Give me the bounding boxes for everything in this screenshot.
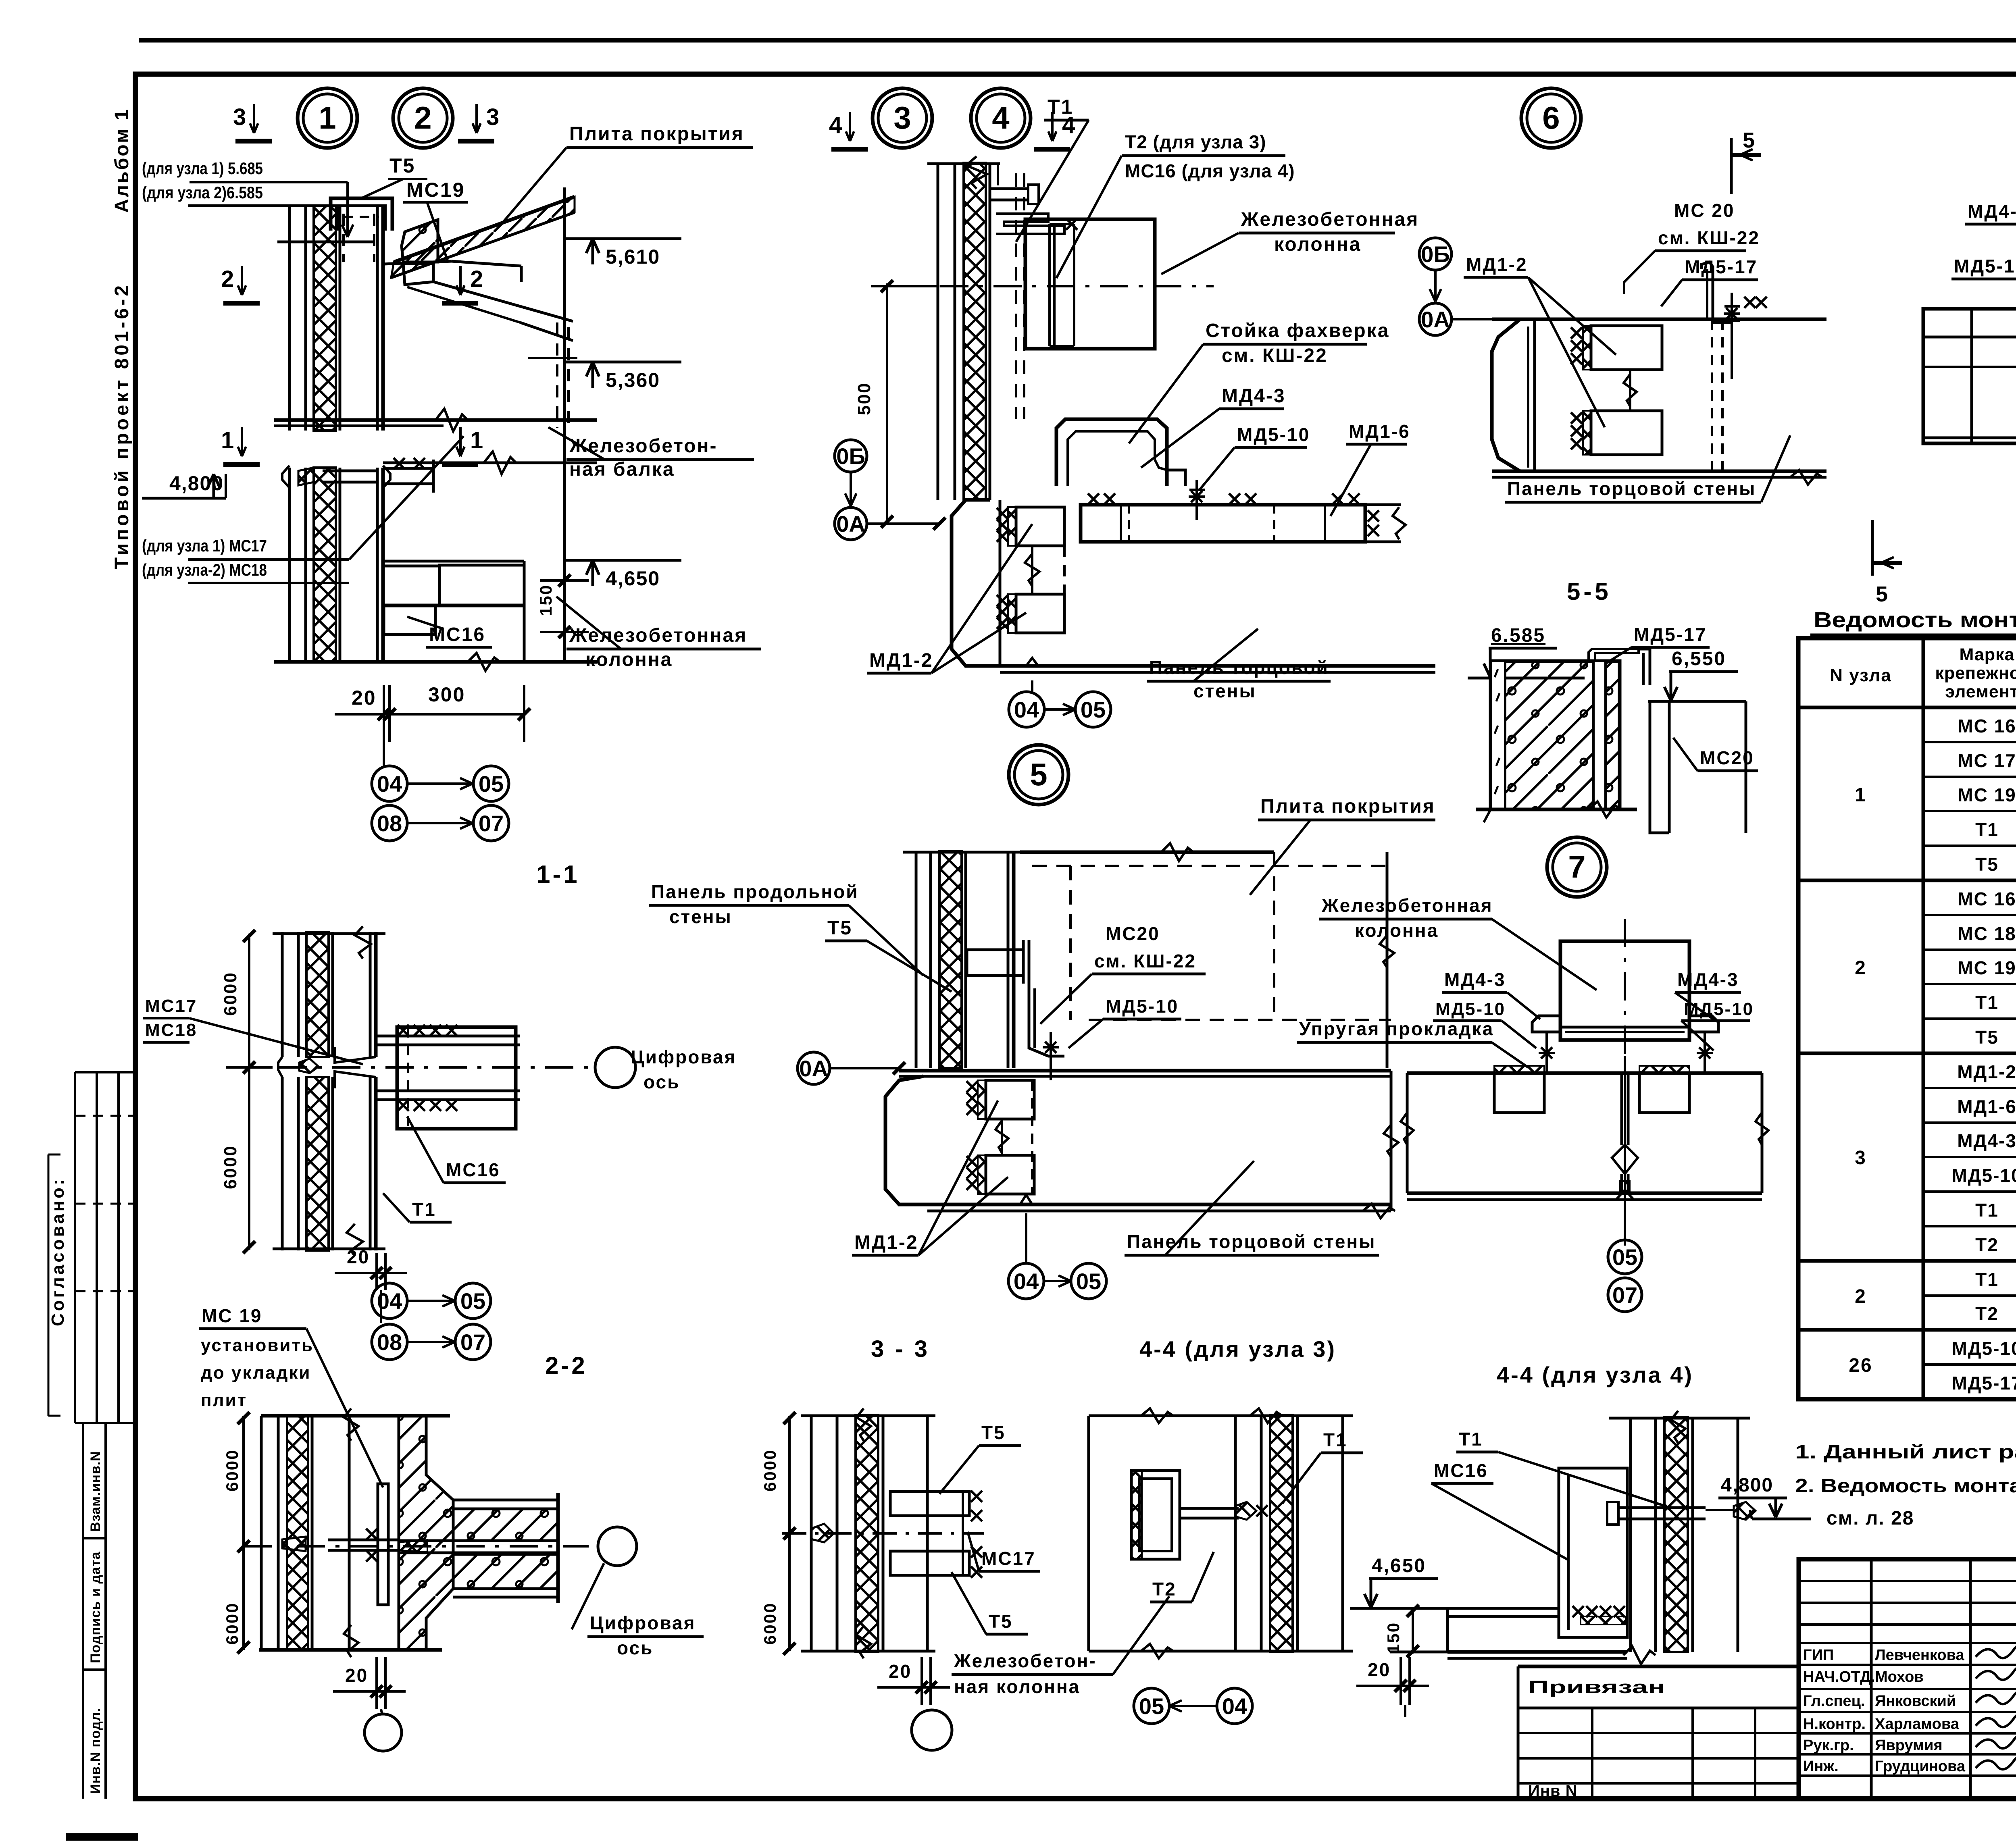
svg-text:3: 3 [486, 104, 499, 130]
svg-text:04: 04 [1014, 1269, 1039, 1294]
svg-text:НАЧ.ОТД.: НАЧ.ОТД. [1803, 1668, 1875, 1685]
svg-text:МД1-2: МД1-2 [869, 650, 933, 671]
svg-text:Панель торцовой стены: Панель торцовой стены [1127, 1231, 1376, 1252]
svg-text:Упругая прокладка: Упругая прокладка [1299, 1018, 1494, 1039]
svg-text:Т1: Т1 [1048, 96, 1073, 118]
svg-text:МС 19: МС 19 [202, 1305, 262, 1326]
svg-text:МС 17: МС 17 [1958, 750, 2016, 771]
svg-text:0А: 0А [799, 1056, 828, 1081]
svg-text:4,800: 4,800 [1721, 1475, 1773, 1496]
svg-text:МД5-10: МД5-10 [1435, 999, 1506, 1019]
svg-text:МД4-3: МД4-3 [1957, 1130, 2016, 1151]
svg-text:05: 05 [479, 771, 504, 797]
svg-text:см. КШ-22: см. КШ-22 [1658, 227, 1760, 248]
svg-text:ная балка: ная балка [569, 459, 675, 480]
svg-text:колонна: колонна [585, 649, 673, 670]
svg-text:3: 3 [233, 104, 246, 130]
svg-text:0А: 0А [836, 511, 865, 537]
svg-text:см. л. 28: см. л. 28 [1826, 1508, 1914, 1529]
svg-text:колонна: колонна [1274, 234, 1361, 255]
svg-text:МД4-3: МД4-3 [1968, 201, 2016, 222]
svg-text:05: 05 [460, 1288, 485, 1314]
svg-text:Ведомость монтажных узлов пане: Ведомость монтажных узлов панелей стен п… [1814, 608, 2016, 632]
svg-text:3: 3 [1855, 1147, 1867, 1169]
svg-text:МД1-2: МД1-2 [854, 1232, 918, 1253]
svg-text:Железобетон-: Железобетон- [569, 435, 718, 457]
svg-text:20: 20 [352, 686, 377, 709]
svg-text:Инж.: Инж. [1803, 1758, 1839, 1775]
svg-text:08: 08 [377, 1329, 402, 1355]
svg-text:Т1: Т1 [1975, 992, 1999, 1013]
svg-text:(для узла-2) МС18: (для узла-2) МС18 [142, 560, 267, 579]
svg-text:Железобетонная: Железобетонная [1241, 209, 1419, 230]
svg-text:6.585: 6.585 [1491, 625, 1545, 646]
svg-text:6000: 6000 [221, 1145, 240, 1189]
svg-text:6,550: 6,550 [1672, 648, 1726, 670]
svg-text:Т5: Т5 [981, 1422, 1006, 1443]
svg-text:МС 19: МС 19 [1958, 957, 2016, 978]
svg-text:20: 20 [347, 1246, 370, 1267]
svg-text:0Б: 0Б [1421, 241, 1450, 267]
svg-text:ная колонна: ная колонна [954, 1676, 1080, 1697]
svg-text:см. КШ-22: см. КШ-22 [1094, 951, 1196, 971]
svg-text:Т2: Т2 [1152, 1579, 1177, 1600]
svg-text:Т2 (для узла 3): Т2 (для узла 3) [1125, 131, 1266, 152]
svg-text:колонна: колонна [1355, 920, 1439, 941]
svg-text:5: 5 [1030, 757, 1047, 792]
svg-text:05: 05 [1612, 1244, 1637, 1270]
svg-text:Инв.N подл.: Инв.N подл. [88, 1708, 103, 1794]
svg-text:N узла: N узла [1830, 666, 1892, 685]
svg-text:4: 4 [829, 112, 842, 138]
svg-text:150: 150 [536, 584, 555, 616]
svg-text:0Б: 0Б [836, 443, 865, 469]
svg-text:МС17: МС17 [981, 1548, 1036, 1569]
svg-text:Панель торцовой: Панель торцовой [1149, 657, 1329, 678]
svg-text:20: 20 [1368, 1659, 1391, 1680]
svg-text:МД5-10: МД5-10 [1951, 1165, 2016, 1186]
svg-text:4,650: 4,650 [606, 567, 660, 590]
svg-text:МС16: МС16 [446, 1159, 500, 1180]
svg-text:МС 16: МС 16 [1958, 888, 2016, 909]
svg-text:Согласовано:: Согласовано: [48, 1177, 68, 1326]
svg-text:МД5-10: МД5-10 [1237, 424, 1310, 445]
svg-text:Т5: Т5 [389, 154, 415, 177]
svg-text:2. Ведомость монтажных узлов п: 2. Ведомость монтажных узлов панелей сте… [1795, 1475, 2016, 1497]
svg-text:МД5-10: МД5-10 [1951, 1338, 2016, 1359]
svg-text:Т5: Т5 [1975, 854, 1999, 875]
svg-text:4-4 (для узла 3): 4-4 (для узла 3) [1139, 1336, 1336, 1362]
svg-text:1: 1 [221, 427, 234, 453]
svg-text:1: 1 [319, 100, 336, 135]
svg-text:5: 5 [1876, 582, 1889, 606]
svg-text:6: 6 [1542, 100, 1560, 135]
svg-text:МД5-10: МД5-10 [1954, 256, 2016, 277]
svg-text:Плита покрытия: Плита покрытия [569, 123, 744, 145]
svg-text:МС16 (для узла 4): МС16 (для узла 4) [1125, 160, 1295, 181]
svg-text:05: 05 [1081, 697, 1106, 722]
svg-text:Т1: Т1 [1975, 819, 1999, 840]
svg-text:07: 07 [460, 1329, 485, 1355]
svg-text:2-2: 2-2 [545, 1352, 587, 1379]
svg-text:МС 19: МС 19 [1958, 784, 2016, 805]
svg-text:Панель продольной: Панель продольной [651, 881, 858, 902]
svg-text:Т5: Т5 [989, 1611, 1013, 1632]
svg-text:20: 20 [889, 1661, 912, 1682]
svg-text:1-1: 1-1 [536, 861, 580, 888]
svg-text:Янковский: Янковский [1875, 1693, 1956, 1710]
svg-text:Т2: Т2 [1975, 1303, 1999, 1324]
svg-text:МД4-3: МД4-3 [1677, 969, 1739, 990]
svg-text:26: 26 [1849, 1355, 1872, 1376]
svg-text:Яврумия: Яврумия [1875, 1737, 1943, 1754]
svg-text:МД1-2: МД1-2 [1957, 1061, 2016, 1082]
svg-text:Левченкова: Левченкова [1875, 1647, 1964, 1664]
svg-text:МД1-6: МД1-6 [1957, 1096, 2016, 1117]
svg-text:4,650: 4,650 [1372, 1555, 1426, 1577]
svg-text:см. КШ-22: см. КШ-22 [1222, 345, 1328, 366]
svg-text:7: 7 [1568, 849, 1585, 884]
svg-text:ось: ось [644, 1071, 680, 1092]
svg-text:04: 04 [377, 771, 402, 797]
svg-text:МС 16: МС 16 [1958, 716, 2016, 736]
svg-text:МС17: МС17 [145, 996, 197, 1016]
svg-text:Т1: Т1 [1459, 1429, 1483, 1450]
svg-text:Цифровая: Цифровая [631, 1046, 736, 1067]
svg-text:МД5-17: МД5-17 [1951, 1373, 2016, 1394]
svg-text:2: 2 [414, 100, 431, 135]
svg-text:МД1-6: МД1-6 [1349, 421, 1410, 442]
svg-text:МС20: МС20 [1700, 747, 1754, 768]
svg-text:МД5-10: МД5-10 [1106, 996, 1179, 1017]
svg-text:3: 3 [893, 100, 911, 135]
svg-text:(для узла 1) МС17: (для узла 1) МС17 [142, 536, 267, 555]
svg-text:МС16: МС16 [1434, 1460, 1488, 1481]
svg-text:Н.контр.: Н.контр. [1803, 1716, 1866, 1733]
svg-text:150: 150 [1384, 1622, 1403, 1654]
svg-text:МД5-17: МД5-17 [1634, 624, 1707, 645]
svg-text:Рук.гр.: Рук.гр. [1803, 1737, 1854, 1754]
svg-text:Взам.инв.N: Взам.инв.N [88, 1451, 103, 1532]
svg-text:Привязан: Привязан [1528, 1677, 1665, 1697]
svg-text:Т5: Т5 [827, 917, 852, 939]
svg-text:крепежного: крепежного [1935, 664, 2016, 683]
svg-text:Гл.спец.: Гл.спец. [1803, 1693, 1865, 1710]
svg-text:2: 2 [1855, 1286, 1867, 1307]
svg-text:(для узла 2)6.585: (для узла 2)6.585 [142, 183, 263, 202]
svg-text:2: 2 [221, 266, 234, 292]
svg-text:05: 05 [1139, 1693, 1164, 1719]
svg-text:МС20: МС20 [1106, 923, 1160, 944]
svg-text:07: 07 [479, 811, 504, 836]
svg-text:Железобетонная: Железобетонная [1321, 895, 1493, 916]
svg-text:5: 5 [1743, 128, 1756, 152]
svg-text:до укладки: до укладки [201, 1363, 311, 1383]
svg-text:6000: 6000 [221, 971, 240, 1016]
svg-text:04: 04 [1014, 697, 1039, 722]
svg-text:Грудцинова: Грудцинова [1875, 1758, 1966, 1775]
svg-text:Железобетон-: Железобетон- [954, 1650, 1097, 1671]
svg-text:Т1: Т1 [412, 1199, 436, 1220]
svg-text:стены: стены [669, 906, 732, 927]
svg-text:Стойка фахверка: Стойка фахверка [1206, 320, 1389, 341]
svg-text:2: 2 [1855, 957, 1867, 979]
svg-text:стены: стены [1193, 680, 1256, 701]
svg-text:1. Данный лист рассматривать с: 1. Данный лист рассматривать совместно с… [1795, 1442, 2016, 1463]
svg-text:6000: 6000 [223, 1602, 242, 1645]
svg-text:3 - 3: 3 - 3 [871, 1336, 930, 1362]
svg-text:элемента: элемента [1945, 682, 2016, 701]
svg-text:Т1: Т1 [1975, 1269, 1999, 1290]
svg-text:МД5-10: МД5-10 [1684, 999, 1754, 1019]
svg-text:20: 20 [345, 1665, 368, 1686]
svg-text:4: 4 [992, 100, 1009, 135]
svg-text:07: 07 [1612, 1282, 1637, 1308]
svg-text:МД5-17: МД5-17 [1685, 256, 1758, 277]
svg-text:Т5: Т5 [1975, 1027, 1999, 1048]
svg-text:Типовой проект 801-6-2: Типовой проект 801-6-2 [111, 283, 133, 569]
svg-text:Альбом 1: Альбом 1 [111, 108, 133, 213]
svg-text:6000: 6000 [760, 1449, 779, 1491]
svg-text:5,360: 5,360 [606, 369, 660, 391]
svg-text:6000: 6000 [760, 1602, 779, 1645]
svg-text:Т1: Т1 [1975, 1200, 1999, 1221]
svg-text:Цифровая: Цифровая [590, 1612, 696, 1633]
svg-text:МС19: МС19 [406, 179, 465, 201]
svg-text:Марка: Марка [1960, 645, 2015, 664]
svg-text:08: 08 [377, 811, 402, 836]
svg-text:плит: плит [201, 1390, 247, 1410]
svg-text:Мохов: Мохов [1875, 1668, 1924, 1685]
svg-text:Панель торцовой стены: Панель торцовой стены [1507, 478, 1756, 499]
svg-text:04: 04 [1222, 1693, 1247, 1719]
svg-text:ось: ось [617, 1637, 653, 1658]
svg-text:ГИП: ГИП [1803, 1647, 1834, 1664]
svg-text:Харламова: Харламова [1875, 1716, 1960, 1733]
svg-text:(для узла 1) 5.685: (для узла 1) 5.685 [142, 159, 263, 178]
svg-text:МД1-2: МД1-2 [1466, 254, 1528, 275]
svg-text:05: 05 [1076, 1269, 1101, 1294]
svg-text:установить: установить [201, 1335, 314, 1355]
svg-text:МС 18: МС 18 [1958, 923, 2016, 944]
svg-text:Плита покрытия: Плита покрытия [1260, 796, 1435, 817]
svg-text:2: 2 [470, 266, 483, 292]
svg-text:МД4-3: МД4-3 [1444, 969, 1506, 990]
svg-text:Инв N: Инв N [1528, 1782, 1578, 1800]
svg-text:1: 1 [470, 427, 483, 453]
svg-text:МС18: МС18 [145, 1020, 197, 1040]
svg-text:Подпись и дата: Подпись и дата [88, 1551, 103, 1663]
svg-text:5,610: 5,610 [606, 245, 660, 268]
svg-text:1: 1 [1855, 784, 1867, 806]
svg-text:0А: 0А [1421, 307, 1450, 332]
svg-text:МД4-3: МД4-3 [1222, 385, 1286, 407]
svg-text:5-5: 5-5 [1567, 578, 1612, 605]
svg-text:МС 20: МС 20 [1674, 200, 1735, 221]
svg-text:Т1: Т1 [1323, 1429, 1347, 1450]
svg-text:6000: 6000 [223, 1449, 242, 1491]
svg-text:300: 300 [428, 683, 465, 706]
svg-text:4-4 (для узла 4): 4-4 (для узла 4) [1497, 1362, 1693, 1387]
svg-text:500: 500 [854, 382, 874, 415]
svg-text:Т2: Т2 [1975, 1234, 1999, 1255]
